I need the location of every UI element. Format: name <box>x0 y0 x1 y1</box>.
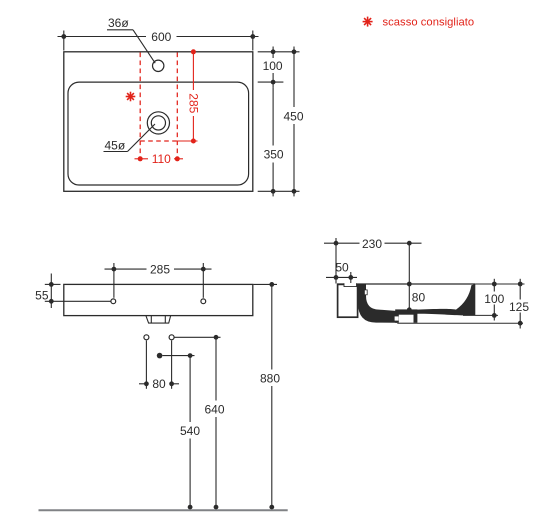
svg-text:55: 55 <box>35 289 49 303</box>
dim 80 side vertical <box>408 243 410 312</box>
dim 230 side <box>324 238 422 284</box>
dim 100 side <box>493 279 495 321</box>
dim 285 front <box>105 263 212 298</box>
dim 540 <box>163 356 195 510</box>
svg-text:36ø: 36ø <box>108 16 129 30</box>
svg-text:45ø: 45ø <box>105 138 126 152</box>
side view bottom extension line to 125 <box>397 322 523 324</box>
front view overflow trap <box>146 316 171 323</box>
side view bottom extension line to 100 <box>463 314 498 316</box>
side view mounting box <box>338 284 358 317</box>
svg-text:scasso consigliato: scasso consigliato <box>383 17 475 29</box>
faucet hole 36mm <box>153 60 164 71</box>
side view drain flange block <box>395 309 417 322</box>
dim 640 <box>174 337 220 510</box>
top view inner basin rounded rect <box>68 82 249 185</box>
svg-text:100: 100 <box>484 292 504 306</box>
front lower left hole <box>144 335 149 340</box>
front view left fixing hole <box>111 299 116 304</box>
dim 880 <box>254 284 278 510</box>
svg-text:80: 80 <box>152 377 166 391</box>
red dashed cutout right edge <box>176 53 178 164</box>
front drain dot <box>157 353 163 359</box>
svg-text:80: 80 <box>412 290 426 304</box>
dim 80 front <box>139 341 179 389</box>
dim 600 top <box>58 31 259 51</box>
side view rear wall thick section <box>358 284 397 323</box>
svg-text:285: 285 <box>150 262 170 276</box>
drain hole inner ring 45mm <box>151 116 165 130</box>
red asterisk in plan <box>126 92 136 102</box>
svg-text:50: 50 <box>335 261 349 275</box>
red dashed cutout bottom edge <box>140 140 177 142</box>
front view body rect <box>64 284 253 315</box>
svg-text:880: 880 <box>260 372 280 386</box>
side view rim line <box>337 283 475 285</box>
side view bowl bottom right and right wall <box>417 284 475 315</box>
legend asterisk <box>363 17 373 27</box>
front view right fixing hole <box>201 299 206 304</box>
svg-text:100: 100 <box>263 59 283 73</box>
side view bracket slot notch <box>344 283 357 286</box>
label 45ø with leader <box>104 124 156 152</box>
floor line <box>39 509 288 511</box>
dim 55 front <box>45 274 111 309</box>
red dim 285 vertical <box>192 53 194 142</box>
red dim 110 <box>135 158 184 160</box>
svg-text:230: 230 <box>362 237 382 251</box>
red dashed cutout left edge <box>139 53 141 164</box>
dim 100 top view <box>258 47 300 88</box>
svg-text:450: 450 <box>283 109 303 123</box>
svg-text:125: 125 <box>509 300 529 314</box>
dim 125 side <box>519 279 521 329</box>
side view drain notch <box>395 316 399 320</box>
side view overflow slot <box>364 290 367 295</box>
svg-text:640: 640 <box>204 403 224 417</box>
label 36ø with leader <box>107 16 155 63</box>
front lower right hole <box>169 335 174 340</box>
drain hole outer ring <box>147 112 169 134</box>
dim 450 top view <box>293 47 295 197</box>
dim 50 side <box>326 272 357 283</box>
red extension to 285 dim <box>177 140 197 142</box>
svg-text:285: 285 <box>186 93 200 113</box>
svg-text:110: 110 <box>152 152 171 166</box>
svg-text:600: 600 <box>151 30 171 44</box>
side view drain interior <box>399 315 414 323</box>
dim 350 top view <box>258 87 300 196</box>
svg-text:350: 350 <box>264 148 284 162</box>
svg-text:540: 540 <box>180 424 200 438</box>
top view outer rect <box>64 52 253 192</box>
side view rim extension to right dims <box>475 283 524 285</box>
